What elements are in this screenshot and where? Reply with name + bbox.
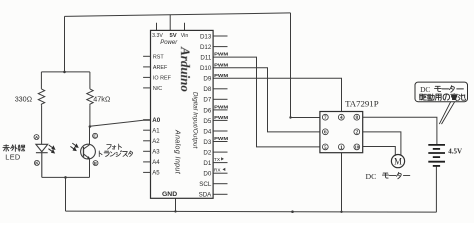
pin 2	[354, 129, 360, 136]
wire D11 to pin 5	[213, 57, 320, 147]
pin 4	[338, 114, 344, 121]
svg-text:Power: Power	[160, 40, 178, 46]
svg-text:PWM: PWM	[214, 52, 228, 57]
pin A0	[143, 119, 150, 121]
callout battery note box	[415, 82, 468, 102]
pin A3	[143, 150, 150, 152]
wire emitter bottom header	[42, 176, 90, 178]
svg-text:GND: GND	[162, 191, 177, 198]
label cathode K	[34, 160, 39, 165]
wire D9 to pin 4	[213, 78, 341, 111]
phototransistor light arrows	[70, 143, 78, 150]
label phototransistor	[99, 144, 132, 157]
svg-text:5: 5	[324, 145, 327, 151]
pin SCL	[213, 183, 227, 185]
svg-text:2: 2	[356, 130, 359, 136]
pin D2	[213, 151, 227, 153]
svg-text:TX: TX	[214, 157, 221, 163]
motor M1	[391, 155, 404, 168]
svg-text:D1: D1	[203, 160, 211, 167]
label sekigaisen LED	[3, 145, 25, 162]
svg-text:Arduino: Arduino	[178, 46, 193, 92]
svg-text:PWM: PWM	[214, 136, 228, 141]
wire collector to A0	[90, 120, 151, 126]
svg-text:D9: D9	[203, 76, 211, 83]
svg-text:PWM: PWM	[214, 62, 228, 67]
svg-text:A1: A1	[152, 129, 160, 135]
wire 3.3V pin stub	[156, 23, 158, 31]
svg-text:D5: D5	[203, 118, 211, 125]
label DC motor	[366, 172, 410, 181]
callout pointer	[439, 102, 454, 124]
wire resistor header	[41, 71, 90, 73]
svg-text:6: 6	[324, 130, 327, 136]
svg-text:47kΩ: 47kΩ	[93, 94, 110, 103]
svg-text:D13: D13	[200, 33, 212, 40]
svg-text:10: 10	[355, 145, 360, 150]
svg-text:D11: D11	[200, 55, 211, 62]
wire arduino GND stub	[175, 198, 177, 211]
wire ground rail	[66, 211, 437, 212]
svg-text:M: M	[394, 156, 402, 166]
svg-text:D10: D10	[200, 65, 212, 72]
svg-text:D7: D7	[203, 97, 211, 104]
wire 5V top rail	[65, 13, 291, 17]
svg-text:Analog Input: Analog Input	[174, 129, 181, 175]
wire Vin pin stub	[184, 23, 186, 31]
svg-text:5V: 5V	[169, 33, 176, 39]
svg-text:DC: DC	[420, 85, 430, 94]
svg-text:3.3V: 3.3V	[152, 33, 163, 39]
pin A1	[143, 129, 150, 131]
pin N/C	[143, 87, 150, 89]
svg-text:IO REF: IO REF	[153, 76, 172, 82]
pin D0 RX	[213, 172, 227, 174]
label anode A	[34, 135, 39, 140]
pin A4	[143, 161, 150, 163]
label DC motor drive battery line2	[420, 94, 466, 101]
pin RST	[143, 55, 150, 57]
wire TA7291P pin 1 to ground	[341, 153, 343, 212]
wire pin 2 to motor	[363, 132, 401, 155]
battery BT1 4.5V	[428, 145, 445, 166]
svg-text:SCL: SCL	[199, 181, 212, 188]
svg-text:RX: RX	[214, 167, 221, 173]
svg-text:AREF: AREF	[153, 65, 168, 71]
wire ground drop	[65, 177, 67, 211]
wire D10 to pin 6	[213, 68, 320, 132]
svg-text:D4: D4	[203, 128, 211, 135]
label collector C	[93, 133, 98, 138]
pin 6	[322, 129, 328, 136]
wire 5V to pin 7 drop	[291, 13, 320, 118]
svg-text:PWM: PWM	[214, 115, 228, 120]
phototransistor Q1	[81, 127, 96, 178]
pin IO REF	[143, 76, 150, 78]
resistor R 47k	[87, 72, 93, 127]
LED emission arrows	[48, 145, 54, 153]
pin 8	[354, 114, 360, 121]
motor driver U2 TA7291P body	[320, 112, 363, 153]
svg-text:A4: A4	[152, 160, 160, 166]
label emitter E	[93, 161, 98, 166]
Arduino U1 body	[151, 30, 214, 198]
emitter arrowhead	[87, 156, 90, 159]
pin SDA	[213, 193, 227, 195]
pin D13	[213, 35, 227, 37]
pin D5	[213, 119, 227, 121]
wire left 5V drop	[64, 16, 66, 72]
svg-text:RST: RST	[153, 54, 164, 60]
svg-text:4: 4	[340, 115, 343, 121]
pin 5	[322, 144, 328, 151]
pin D6	[213, 109, 227, 111]
svg-text:Vin: Vin	[181, 33, 189, 39]
pin AREF	[143, 66, 150, 68]
svg-text:7: 7	[324, 115, 327, 121]
svg-text:PWM: PWM	[214, 105, 228, 110]
svg-text:Digital Input/Output: Digital Input/Output	[191, 92, 198, 149]
pin D4	[213, 130, 227, 132]
svg-text:D12: D12	[200, 44, 212, 51]
pin A5	[143, 171, 150, 173]
pin A2	[143, 140, 150, 142]
svg-text:D8: D8	[203, 86, 211, 93]
svg-text:A0: A0	[152, 117, 160, 124]
svg-text:330Ω: 330Ω	[15, 94, 33, 103]
svg-text:D3: D3	[203, 139, 211, 146]
svg-text:D6: D6	[203, 107, 211, 114]
svg-text:E: E	[94, 161, 97, 166]
pin D1 TX	[213, 162, 227, 164]
svg-text:A2: A2	[152, 139, 160, 145]
pin D8	[213, 88, 227, 90]
label DC motor drive battery line1	[420, 85, 463, 94]
pin 1	[338, 144, 344, 151]
svg-text:N/C: N/C	[153, 86, 162, 92]
wire 5V pin stub to rail	[169, 15, 171, 31]
svg-text:PWM: PWM	[214, 73, 228, 78]
pin D12	[213, 46, 227, 48]
svg-text:D0: D0	[203, 171, 211, 178]
svg-text:A5: A5	[152, 171, 160, 177]
wire pin 8 to battery	[363, 117, 437, 144]
pin D3	[213, 141, 227, 143]
svg-text:TA7291P: TA7291P	[345, 99, 379, 109]
svg-text:1: 1	[340, 145, 343, 151]
svg-text:4.5V: 4.5V	[448, 148, 462, 156]
pin 7	[322, 114, 328, 121]
pin D7	[213, 98, 227, 100]
LED D1 infrared	[36, 144, 48, 177]
svg-text:DC: DC	[366, 172, 377, 181]
svg-text:A3: A3	[152, 150, 160, 156]
pin 10	[354, 144, 360, 150]
svg-text:LED: LED	[5, 153, 20, 162]
wire pin 10 to motor	[363, 147, 396, 156]
wire battery negative to ground	[435, 166, 437, 212]
resistor R 330ohm	[38, 72, 44, 144]
svg-text:8: 8	[356, 115, 359, 121]
svg-text:SDA: SDA	[199, 192, 213, 199]
svg-text:D2: D2	[203, 150, 211, 157]
